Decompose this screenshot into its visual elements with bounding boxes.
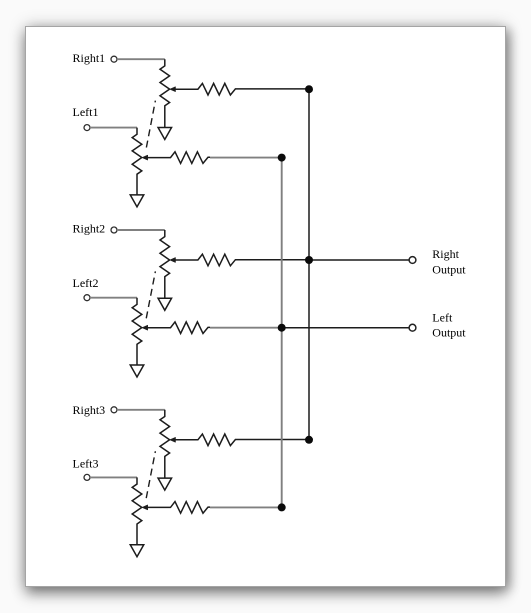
svg-text:Left2: Left2 [73, 276, 99, 290]
svg-text:Left3: Left3 [73, 456, 99, 470]
svg-text:Left1: Left1 [73, 105, 99, 119]
svg-text:Output: Output [432, 262, 466, 276]
svg-text:Right3: Right3 [73, 403, 106, 417]
svg-text:Right2: Right2 [73, 221, 106, 235]
svg-text:Right: Right [432, 247, 459, 261]
svg-text:Output: Output [432, 326, 466, 340]
svg-text:Right1: Right1 [73, 51, 106, 65]
svg-text:Left: Left [432, 311, 453, 325]
